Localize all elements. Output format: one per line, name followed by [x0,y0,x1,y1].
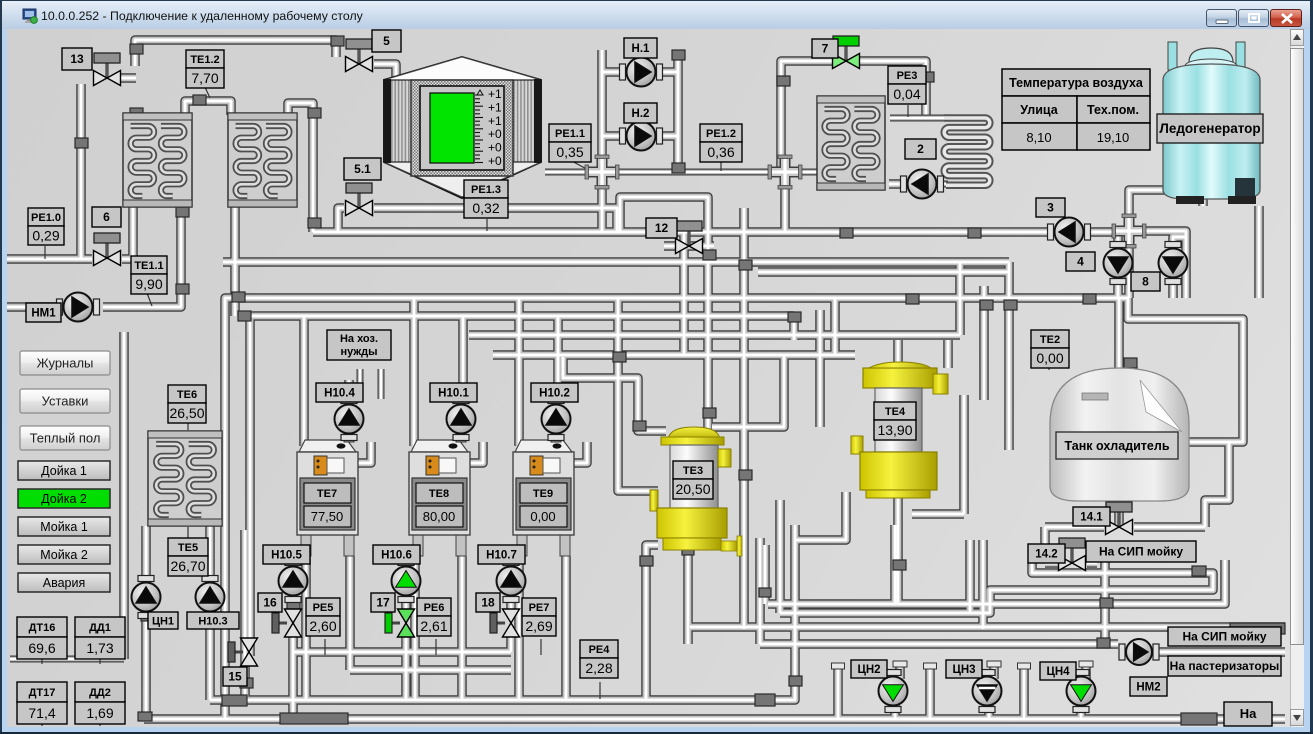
svg-text:Н10.4: Н10.4 [324,388,355,400]
svg-text:Ледогенератор: Ледогенератор [1159,121,1260,136]
svg-text:ЦН1: ЦН1 [152,616,174,628]
svg-text:Тех.пом.: Тех.пом. [1087,103,1139,117]
svg-text:ТЕ8: ТЕ8 [429,488,449,500]
svg-text:12: 12 [655,221,669,235]
svg-text:0,35: 0,35 [556,144,583,160]
svg-text:2,28: 2,28 [585,660,612,676]
svg-text:ТЕ1.2: ТЕ1.2 [190,54,219,66]
svg-text:+0: +0 [488,127,502,141]
svg-text:4: 4 [1077,255,1084,269]
svg-text:РЕ4: РЕ4 [589,644,611,656]
svg-text:ТЕ3: ТЕ3 [683,465,703,477]
svg-text:77,50: 77,50 [311,509,344,524]
svg-text:ТЕ6: ТЕ6 [177,389,197,401]
svg-text:+1: +1 [488,87,502,101]
svg-text:Н10.2: Н10.2 [539,388,570,400]
svg-text:ТЕ2: ТЕ2 [1040,334,1060,346]
svg-text:13,90: 13,90 [877,422,912,438]
svg-text:8,10: 8,10 [1026,130,1051,145]
svg-text:ТЕ5: ТЕ5 [178,542,198,554]
svg-text:На: На [1240,706,1257,721]
svg-text:РЕ3: РЕ3 [897,70,918,82]
svg-text:ЦН3: ЦН3 [952,664,975,676]
svg-text:15: 15 [228,670,242,684]
svg-text:НМ1: НМ1 [31,308,56,320]
svg-text:Танк охладитель: Танк охладитель [1064,439,1169,453]
svg-text:0,29: 0,29 [32,228,59,244]
svg-text:РЕ6: РЕ6 [424,602,445,614]
svg-text:На СИП мойку: На СИП мойку [1182,630,1266,644]
svg-text:8: 8 [1142,275,1149,289]
svg-text:2: 2 [917,142,924,156]
svg-text:РЕ1.1: РЕ1.1 [555,128,585,140]
svg-text:Дойка 2: Дойка 2 [41,492,87,506]
svg-text:ДТ16: ДТ16 [29,622,56,634]
svg-text:РЕ1.3: РЕ1.3 [471,184,501,196]
svg-text:19,10: 19,10 [1097,130,1130,145]
svg-text:+1: +1 [488,114,502,128]
svg-text:На пастеризаторы: На пастеризаторы [1170,659,1280,673]
svg-text:РЕ1.2: РЕ1.2 [706,128,736,140]
svg-text:Н.1: Н.1 [632,43,651,55]
svg-text:9,90: 9,90 [135,276,162,292]
svg-text:РЕ7: РЕ7 [529,602,550,614]
svg-text:7,70: 7,70 [191,70,218,86]
svg-text:Н10.6: Н10.6 [381,550,412,562]
svg-text:1,69: 1,69 [86,705,113,721]
svg-text:0,00: 0,00 [530,509,555,524]
svg-text:Н10.7: Н10.7 [486,550,517,562]
svg-text:Дойка 1: Дойка 1 [41,464,87,478]
svg-text:2,61: 2,61 [420,618,447,634]
svg-text:17: 17 [376,596,390,610]
svg-text:На хоз.: На хоз. [340,333,378,345]
svg-text:7: 7 [822,42,829,56]
svg-text:ЦН2: ЦН2 [857,664,880,676]
svg-text:1,73: 1,73 [86,640,113,656]
svg-text:18: 18 [481,596,495,610]
svg-text:26,50: 26,50 [169,405,204,421]
svg-text:2,60: 2,60 [309,618,336,634]
svg-text:69,6: 69,6 [28,640,55,656]
svg-text:0,04: 0,04 [893,86,920,102]
svg-text:НМ2: НМ2 [1136,682,1160,694]
svg-text:ДТ17: ДТ17 [29,687,56,699]
svg-text:+1: +1 [488,100,502,114]
svg-text:5: 5 [383,34,390,48]
svg-text:5.1: 5.1 [354,162,371,176]
svg-text:16: 16 [263,596,277,610]
svg-text:0,36: 0,36 [707,144,734,160]
svg-text:Теплый пол: Теплый пол [30,431,101,446]
svg-text:14.2: 14.2 [1035,549,1057,561]
svg-text:ТЕ1.1: ТЕ1.1 [134,260,163,272]
svg-text:0,32: 0,32 [472,200,499,216]
svg-text:2,69: 2,69 [525,618,552,634]
svg-text:ТЕ7: ТЕ7 [317,488,337,500]
svg-text:3: 3 [1047,201,1054,215]
svg-text:Авария: Авария [43,576,86,590]
svg-text:+0: +0 [488,154,502,168]
svg-text:ДД2: ДД2 [89,687,111,699]
svg-text:80,00: 80,00 [423,509,456,524]
svg-text:71,4: 71,4 [28,705,55,721]
svg-text:РЕ1.0: РЕ1.0 [31,212,61,224]
svg-text:26,70: 26,70 [170,558,205,574]
svg-text:13: 13 [70,52,84,66]
svg-text:Н.2: Н.2 [632,108,650,120]
svg-text:20,50: 20,50 [675,481,710,497]
svg-text:ДД1: ДД1 [89,622,111,634]
svg-text:ТЕ4: ТЕ4 [885,406,906,418]
svg-text:+0: +0 [488,141,502,155]
svg-text:Уставки: Уставки [42,394,89,409]
svg-text:Улица: Улица [1020,103,1058,117]
svg-text:РЕ5: РЕ5 [313,602,334,614]
svg-text:6: 6 [103,210,110,224]
svg-text:Н10.1: Н10.1 [438,388,469,400]
svg-text:ЦН4: ЦН4 [1046,666,1070,678]
svg-text:Температура воздуха: Температура воздуха [1009,76,1144,90]
svg-text:нужды: нужды [340,346,377,358]
svg-text:Н10.5: Н10.5 [271,550,302,562]
svg-text:0,00: 0,00 [1036,350,1063,366]
svg-text:Мойка 1: Мойка 1 [40,520,88,534]
svg-text:Журналы: Журналы [37,356,94,371]
svg-text:Мойка 2: Мойка 2 [40,548,88,562]
svg-text:Н10.3: Н10.3 [198,616,227,628]
svg-text:На СИП мойку: На СИП мойку [1099,545,1183,559]
svg-text:14.1: 14.1 [1080,512,1103,524]
svg-text:ТЕ9: ТЕ9 [533,488,553,500]
